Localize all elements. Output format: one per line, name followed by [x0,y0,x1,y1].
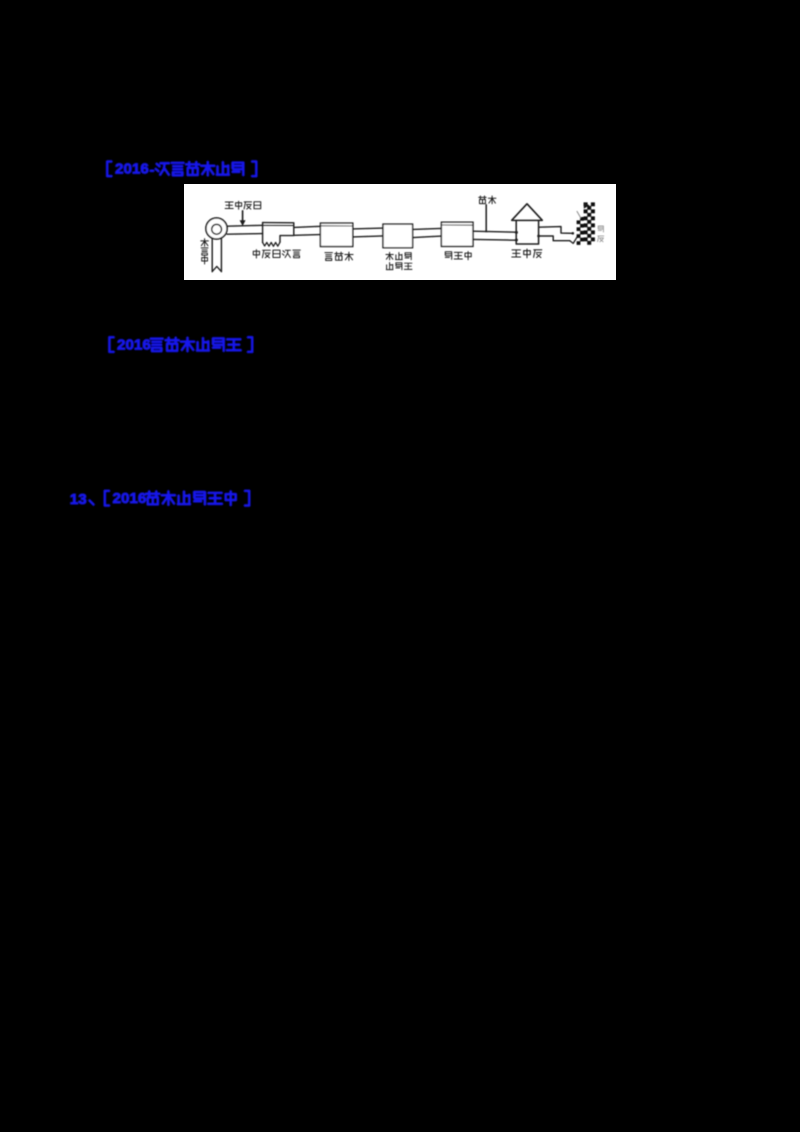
pipe arrow check into building [570,236,578,243]
blue heading row 2 source tag [109,337,252,354]
label 吸附池 [386,263,412,270]
pipe wire sedimentation to filter [294,226,321,235]
tank 反应沉淀池 outline [263,223,294,247]
stray stroke left of building [577,211,581,217]
pipe wire pump outlet lower [539,236,570,241]
pipe wire clear water tank to pump [473,231,516,240]
label 过滤池 [325,252,353,260]
label 活性炭 [386,252,411,260]
pump 配水泵 body [515,221,540,244]
pipe wire intake to sedimentation tank [227,225,263,234]
svg-text:2016: 2016 [115,161,149,178]
water intake wheel 取水口 outer circle [206,218,227,239]
svg-text:13: 13 [70,491,87,508]
svg-text:2016: 2016 [117,337,151,354]
tank 活性炭吸附池 outline [383,224,413,248]
label 配水泵 [512,249,542,258]
water intake inner circle [212,224,222,234]
flocculant dosing arrow [240,211,246,226]
tank 过滤池 outline [320,223,352,246]
svg-text:2016: 2016 [113,490,147,507]
blue heading row 3 source tag [105,490,249,507]
white diagram panel [184,184,616,280]
label 取水口 (vertical) [201,239,209,264]
pump 配水泵 roof [512,204,542,221]
label 清水池 [445,252,471,260]
chlorine dosing line wire [485,205,487,232]
pipe wire filter to carbon tank [353,228,383,237]
label 加絮凝剂 [225,201,261,209]
intake drop pipe wire [212,238,221,271]
tank 清水池 outline [441,222,473,246]
pipe wire pump outlet upper [539,227,575,235]
label 投药 [479,196,496,204]
question number 13 [70,491,94,508]
label 反应沉淀池 [253,250,300,258]
label 用户 (grey, vertical) [598,226,604,242]
intake pipe swallowtail end [212,266,221,271]
pipe wire carbon tank to clear water tank [413,228,442,237]
building 用户 checkered tower [577,202,595,245]
blue heading row 1 source tag [107,161,256,178]
